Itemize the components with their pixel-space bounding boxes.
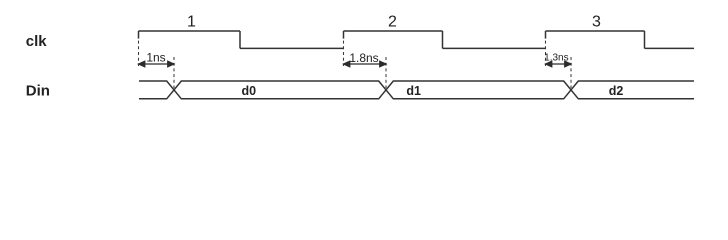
svg-text:d0: d0 — [242, 84, 257, 98]
svg-text:d2: d2 — [609, 84, 624, 98]
svg-text:2: 2 — [388, 13, 397, 30]
svg-text:1.8ns: 1.8ns — [349, 51, 378, 65]
svg-text:d1: d1 — [406, 84, 421, 98]
svg-text:Din: Din — [26, 83, 50, 100]
svg-text:1.3ns: 1.3ns — [544, 53, 568, 64]
svg-text:clk: clk — [26, 33, 48, 50]
svg-text:1ns: 1ns — [146, 50, 165, 64]
svg-text:1: 1 — [187, 13, 196, 30]
svg-text:3: 3 — [592, 13, 601, 30]
